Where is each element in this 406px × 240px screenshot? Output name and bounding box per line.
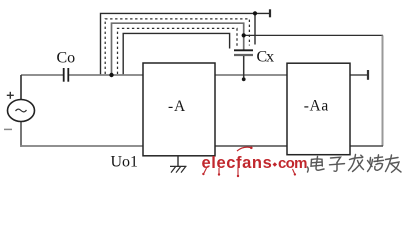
svg-text:-A: -A [168, 98, 186, 115]
svg-text:Cx: Cx [257, 48, 275, 65]
svg-text:Uo1: Uo1 [111, 154, 139, 171]
svg-text:elecfans: elecfans [202, 154, 273, 172]
svg-text:-Aa: -Aa [304, 98, 329, 115]
svg-text:Co: Co [57, 50, 76, 67]
